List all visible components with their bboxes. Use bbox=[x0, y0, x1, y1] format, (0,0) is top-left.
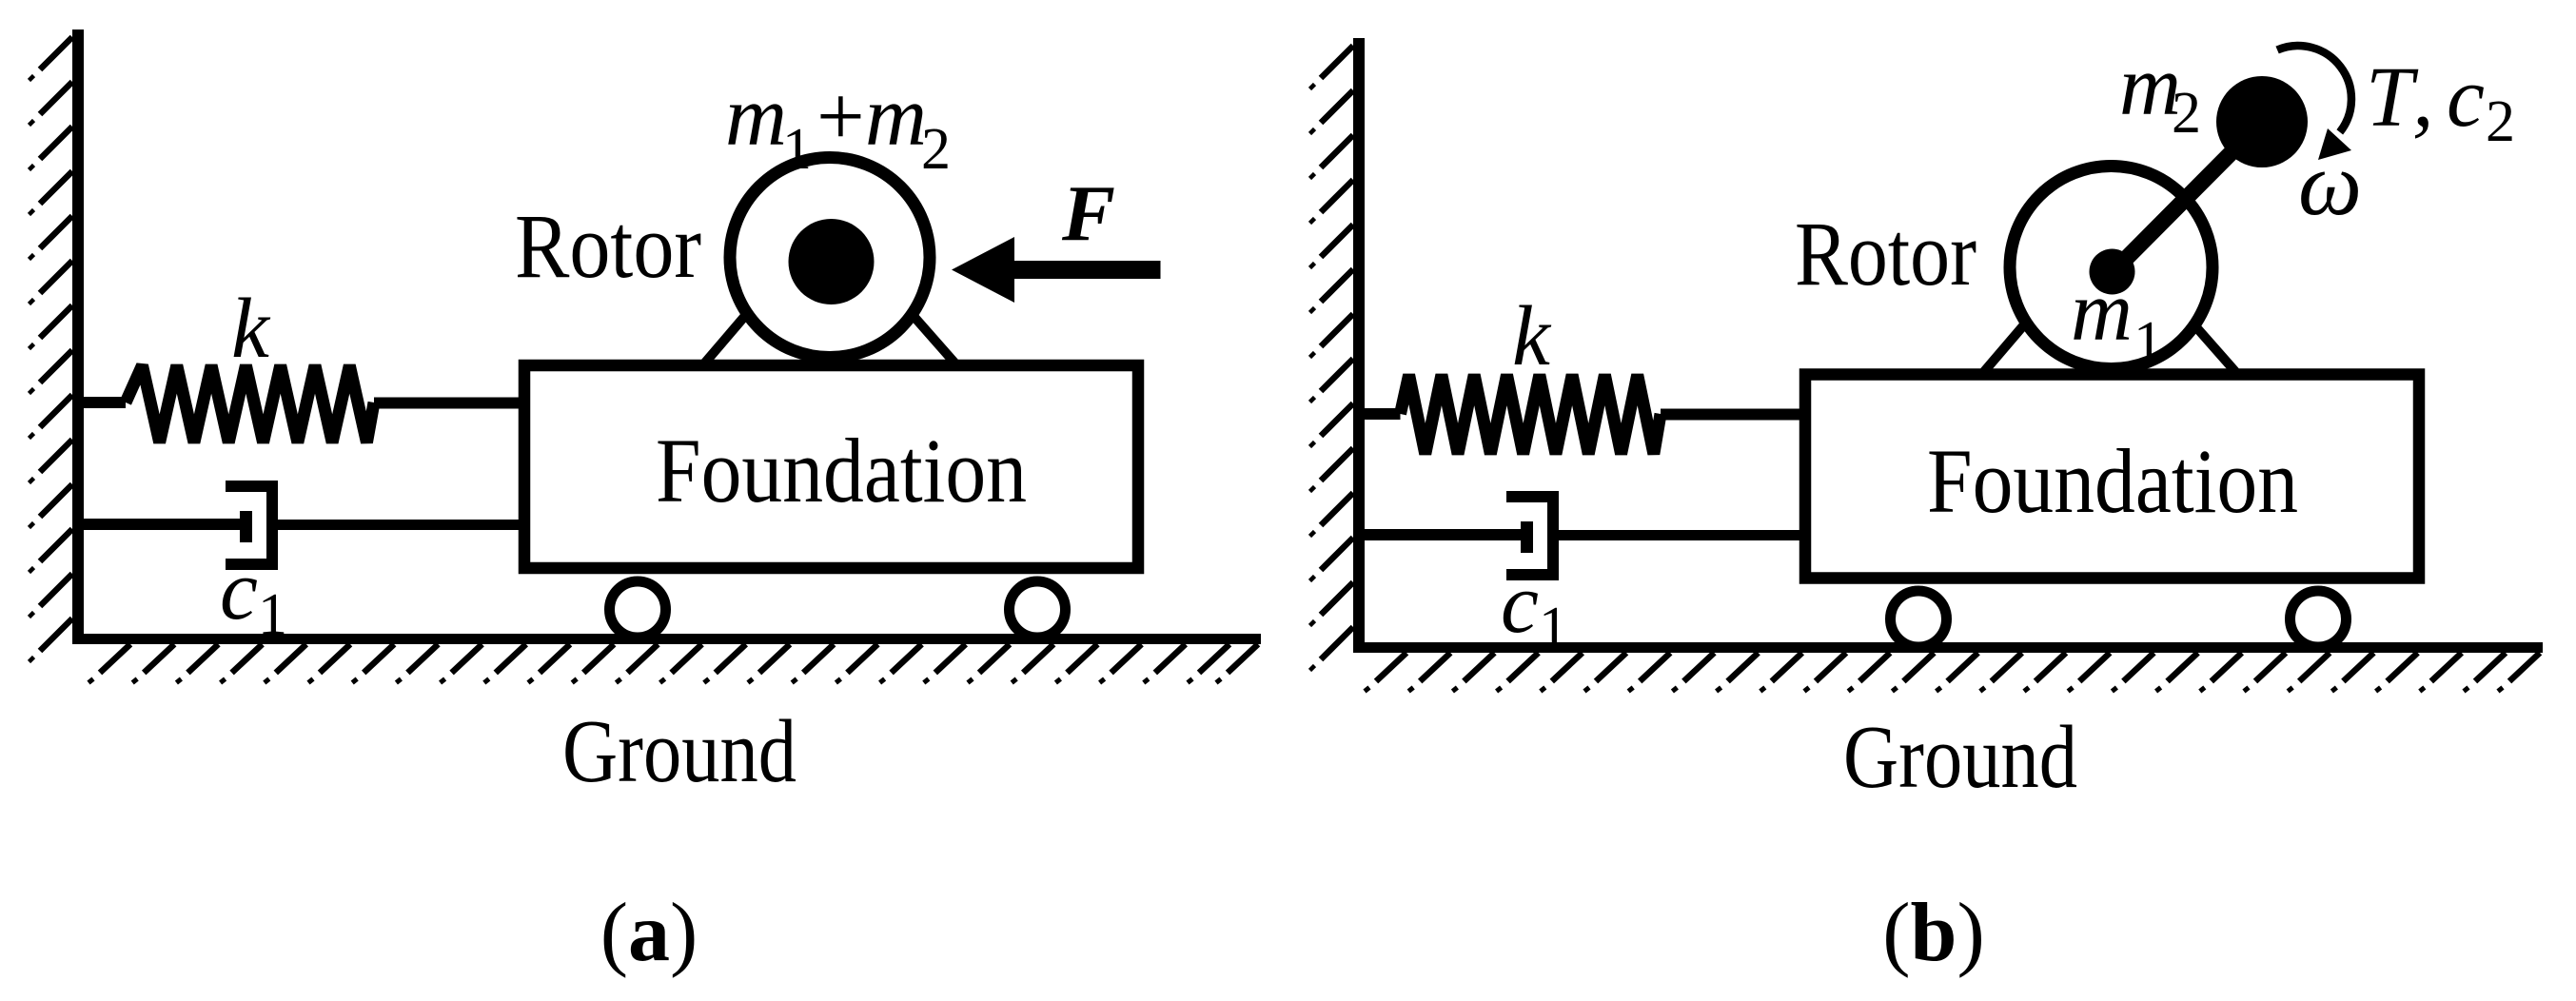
svg-text:k: k bbox=[231, 282, 271, 376]
ground hatching (b) bbox=[1376, 653, 1406, 681]
wheel right (b) bbox=[2291, 591, 2347, 647]
svg-text:k: k bbox=[1512, 289, 1552, 383]
svg-text:Ground: Ground bbox=[1843, 708, 2077, 807]
rotor hub m1 (b) bbox=[2090, 249, 2135, 295]
svg-text:(a): (a) bbox=[600, 887, 698, 979]
eccentric mass m2 (b) bbox=[2216, 76, 2308, 167]
pendulum rod (b) bbox=[2113, 123, 2261, 272]
damper c1 (a) bbox=[84, 519, 240, 530]
force arrow F (a) bbox=[1011, 261, 1161, 279]
rotor support legs (a) bbox=[705, 297, 761, 363]
svg-text:T,c2: T,c2 bbox=[2366, 50, 2515, 154]
svg-text:Foundation: Foundation bbox=[656, 420, 1027, 521]
foundation box (b) bbox=[1805, 375, 2419, 579]
svg-text:Foundation: Foundation bbox=[1927, 430, 2298, 532]
rotation arrow (b) bbox=[2277, 46, 2351, 132]
svg-text:(b): (b) bbox=[1882, 887, 1985, 979]
ground hatching (a) bbox=[100, 644, 130, 673]
wall hatching (b) bbox=[1321, 46, 1353, 78]
ground line (a) bbox=[72, 634, 1261, 644]
spring k (a) bbox=[84, 397, 126, 408]
svg-text:Ground: Ground bbox=[562, 702, 796, 801]
wall (a) bbox=[72, 29, 84, 644]
damper c1 (b) bbox=[1365, 529, 1521, 540]
rotor circle (a) bbox=[730, 158, 930, 358]
svg-text:Rotor: Rotor bbox=[1795, 203, 1976, 304]
wall hatching (a) bbox=[40, 37, 72, 69]
spring k (b) bbox=[1365, 408, 1401, 420]
rotor circle (b) bbox=[2010, 167, 2212, 369]
rotor support legs (b) bbox=[1984, 306, 2040, 372]
wheel left (b) bbox=[1891, 591, 1947, 647]
wheel left (a) bbox=[610, 581, 666, 638]
foundation box (a) bbox=[524, 365, 1138, 568]
svg-text:Rotor: Rotor bbox=[515, 195, 701, 297]
ground line (b) bbox=[1353, 642, 2543, 653]
rotor center mass (a) bbox=[789, 219, 875, 304]
svg-text:m2: m2 bbox=[2119, 39, 2201, 146]
wheel right (a) bbox=[1010, 581, 1066, 638]
svg-text:ω: ω bbox=[2298, 133, 2362, 234]
wall (b) bbox=[1353, 38, 1365, 653]
svg-text:F: F bbox=[1061, 169, 1115, 258]
